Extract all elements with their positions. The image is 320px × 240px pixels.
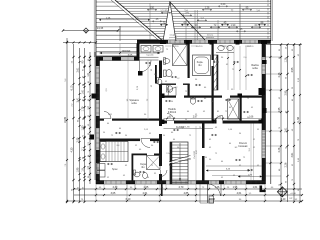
svg-text:soba: soba [252,67,258,70]
svg-text:6,10: 6,10 [126,198,131,201]
svg-text:120/120: 120/120 [196,46,203,48]
svg-text:2,61: 2,61 [77,67,80,72]
svg-text:kupatilo: kupatilo [147,54,155,57]
svg-text:1,26: 1,26 [106,18,111,20]
svg-text:17x: 17x [166,153,169,155]
svg-text:3,20 1,66: 3,20 1,66 [180,127,190,129]
svg-text:16,95: 16,95 [64,116,67,123]
svg-text:+0,00: +0,00 [290,193,296,195]
svg-text:9.90m2: 9.90m2 [168,111,177,114]
svg-text:4,30: 4,30 [71,147,74,152]
svg-text:1,61: 1,61 [82,89,85,94]
svg-text:1,66: 1,66 [249,117,254,119]
svg-text:14,35: 14,35 [97,26,104,30]
svg-text:3,20: 3,20 [221,3,226,6]
svg-text:1,01: 1,01 [217,117,222,119]
svg-text:45: 45 [83,99,85,101]
svg-text:52: 52 [88,115,90,117]
svg-text:60: 60 [83,157,85,159]
svg-text:2,97: 2,97 [193,117,198,119]
svg-text:4,61: 4,61 [237,192,242,195]
svg-text:1,95: 1,95 [77,167,80,172]
svg-text:1,99: 1,99 [231,24,236,27]
svg-text:3,05: 3,05 [278,107,281,112]
svg-text:povrsina: povrsina [206,36,215,39]
svg-text:spavaca: spavaca [122,51,131,53]
svg-text:1,26: 1,26 [205,7,210,10]
svg-text:1,95: 1,95 [233,186,238,189]
svg-text:2,26: 2,26 [285,162,288,167]
svg-text:2,05: 2,05 [77,137,80,142]
svg-text:180/120: 180/120 [222,46,229,48]
svg-text:4,61: 4,61 [291,152,294,157]
svg-text:Spav.: Spav. [112,168,118,171]
svg-text:45: 45 [88,81,90,83]
svg-text:30: 30 [88,99,90,101]
svg-text:72: 72 [83,135,85,137]
svg-text:6,05: 6,05 [128,55,133,57]
svg-text:2,46: 2,46 [278,147,281,152]
svg-text:povrsina: povrsina [169,36,178,39]
svg-text:60: 60 [83,84,85,86]
svg-text:2,70: 2,70 [179,186,184,189]
svg-text:120/120: 120/120 [247,46,254,48]
svg-text:150: 150 [150,7,155,10]
svg-text:1,79: 1,79 [82,106,85,111]
svg-text:17x18/25: 17x18/25 [194,150,196,159]
svg-text:60: 60 [88,133,90,135]
svg-text:2,39: 2,39 [113,186,118,189]
svg-text:3,41: 3,41 [77,97,80,102]
svg-text:1,26: 1,26 [215,186,220,189]
svg-text:soba: soba [131,102,137,105]
svg-text:6,10: 6,10 [71,85,74,90]
svg-text:11,58: 11,58 [297,116,300,122]
svg-text:3,95: 3,95 [291,67,294,72]
svg-text:2,05: 2,05 [144,186,149,189]
svg-text:10,05: 10,05 [209,198,216,201]
svg-text:180/120: 180/120 [172,46,179,48]
svg-text:82: 82 [83,69,85,71]
svg-text:3,05: 3,05 [111,192,116,195]
svg-text:boravak: boravak [239,145,249,148]
svg-text:1,61: 1,61 [253,186,258,189]
